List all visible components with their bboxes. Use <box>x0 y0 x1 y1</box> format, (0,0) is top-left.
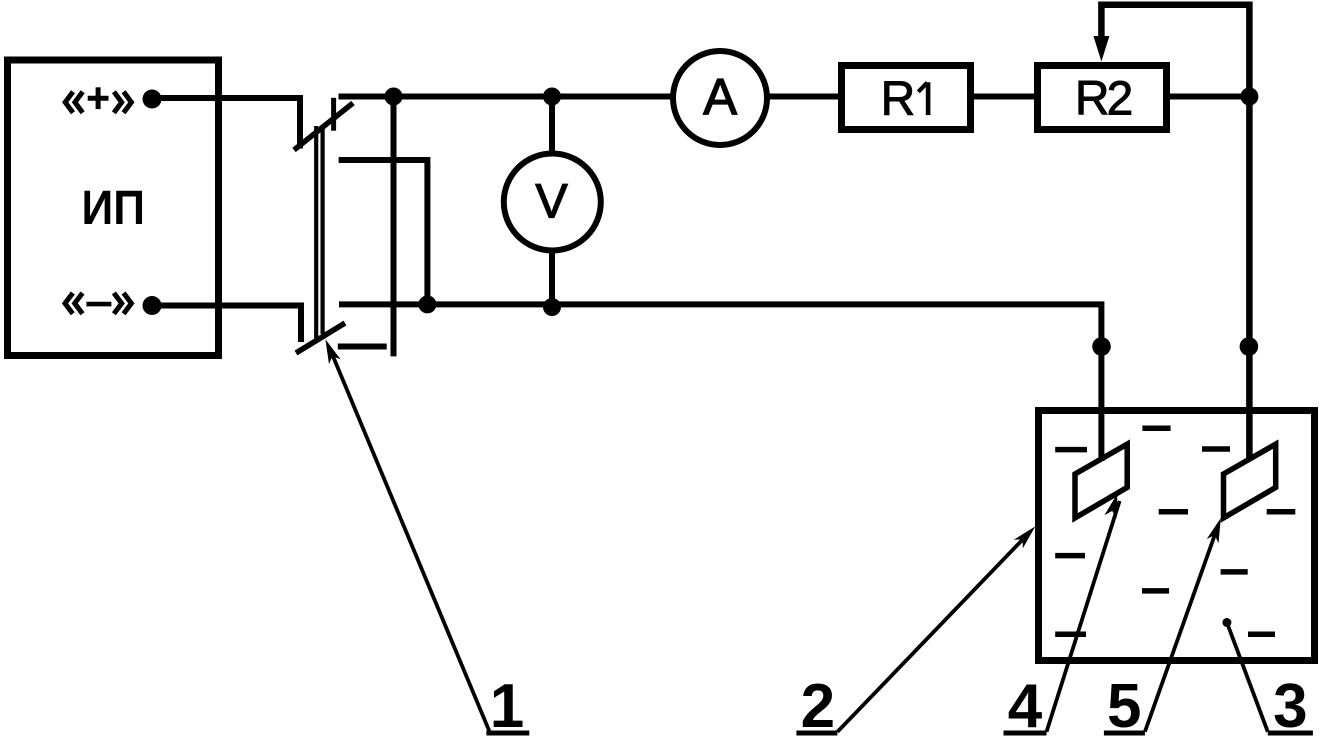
terminal dot + <box>143 90 162 109</box>
label 1 underline <box>486 731 529 736</box>
wire vertical through at node A <box>391 97 397 357</box>
power supply box ИП <box>8 60 219 356</box>
label 5 underline <box>1104 731 1145 736</box>
svg-text:3: 3 <box>1273 672 1307 738</box>
label ИП <box>82 180 145 234</box>
wire + terminal to plug left top hook <box>152 98 300 149</box>
node C dot <box>1240 88 1258 106</box>
rheostat wiper arrowhead <box>1093 36 1109 62</box>
leader 2 arrowhead <box>1014 526 1036 548</box>
leader 4 arrowhead <box>1104 494 1117 519</box>
label «−» guillemet left <box>65 293 83 314</box>
svg-text:R: R <box>881 73 916 126</box>
rheostat R2 box <box>1038 66 1167 130</box>
ammeter PA circle <box>673 51 767 145</box>
electrolyte dash 10 <box>1248 631 1275 637</box>
label 4 underline <box>1004 731 1047 736</box>
wire voltmeter bottom stub <box>549 250 555 304</box>
connector X1 bottom slash <box>296 323 345 353</box>
svg-text:R2: R2 <box>1075 73 1132 126</box>
svg-text:1: 1 <box>490 672 524 738</box>
node A dot <box>385 88 403 106</box>
label «−» guillemet right <box>114 293 131 314</box>
wire bottom rail <box>339 304 1101 461</box>
label 3 underline <box>1268 731 1313 736</box>
voltmeter PV circle <box>504 154 601 251</box>
svg-text:ИП: ИП <box>82 180 145 234</box>
leader line 4 <box>1047 501 1120 732</box>
leader 5 arrowhead <box>1207 518 1221 543</box>
connector X1 top slash <box>294 103 353 150</box>
wire top from connector to node A <box>339 94 394 100</box>
resistor R1 box <box>842 66 971 130</box>
electrolyte dash 4 <box>1159 509 1188 515</box>
terminal dot − <box>143 296 162 315</box>
electrode 5 plate <box>1224 444 1276 518</box>
node B dot <box>418 295 436 313</box>
leader line 1 <box>331 352 490 732</box>
label 2 underline <box>796 731 837 736</box>
connector X1 mating line right <box>321 126 325 334</box>
svg-text:A: A <box>703 69 737 126</box>
leader line 5 <box>1145 525 1218 732</box>
electrolyte dash 2 <box>1055 447 1087 453</box>
electrode 4 plate <box>1075 444 1127 518</box>
electrolyte dash 8 <box>1142 588 1169 594</box>
wire R1 to R2 <box>974 94 1037 100</box>
wire top rail node A to voltmeter node <box>394 94 674 100</box>
electrolyte dash 9 <box>1055 631 1086 637</box>
node V-top dot <box>543 88 561 106</box>
electrolyte dash 6 <box>1055 553 1085 559</box>
node dot on wire to electrode 4 <box>1092 337 1111 356</box>
electrolyte dash 3 <box>1202 446 1230 452</box>
wire voltmeter top stub <box>549 97 555 156</box>
leader line 3 <box>1227 623 1268 732</box>
electrolytic bath vessel 3 <box>1039 411 1315 661</box>
connector X1 mating line left <box>314 126 318 339</box>
node V-bottom dot <box>543 298 561 316</box>
svg-text:2: 2 <box>801 672 835 738</box>
label «+» guillemet left <box>65 92 83 113</box>
electrolyte dash 7 <box>1221 569 1248 575</box>
svg-text:V: V <box>535 175 568 229</box>
leader 1 arrowhead <box>325 339 340 364</box>
svg-text:4: 4 <box>1008 672 1043 738</box>
connector X1 right top pin stub <box>331 98 336 131</box>
node dot on wire to electrode 5 <box>1240 337 1259 356</box>
electrolyte dash 1 <box>1142 425 1170 431</box>
wire middle contact run <box>339 160 428 304</box>
wire node C down to electrode 5 <box>1246 97 1253 460</box>
wire R2 to node C <box>1170 94 1249 100</box>
label «+» guillemet right <box>114 92 131 113</box>
svg-text:5: 5 <box>1107 672 1141 738</box>
label «−» minus sign <box>86 302 111 307</box>
label «+» plus sign <box>88 87 109 109</box>
connector X1 right bottom pin bar <box>338 344 387 350</box>
wire − terminal to plug left bottom hook <box>152 306 301 343</box>
wire ammeter to R1 <box>767 94 841 100</box>
leader line 2 <box>837 532 1030 732</box>
leader 3 end dot <box>1222 618 1231 627</box>
rheostat wiper feedback loop wire <box>1101 5 1249 97</box>
electrolyte dash 5 <box>1267 509 1296 515</box>
